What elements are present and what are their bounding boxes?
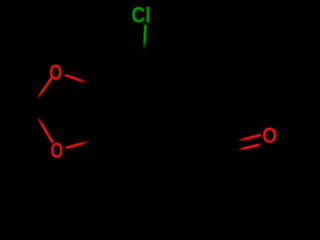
bond O3-C2 (red fading to black): [32, 107, 53, 143]
svg-text:O: O: [49, 60, 62, 85]
bond C8=O9 upper line (red fading to black): [228, 135, 261, 143]
bond O1-C2 (red fading to black): [32, 77, 53, 107]
bond O1-C7a (red fading to black): [65, 75, 96, 86]
svg-text:Cl: Cl: [131, 3, 150, 28]
benzene ring (black, invisible on background): [96, 57, 185, 158]
svg-text:O: O: [50, 138, 63, 163]
bond C5-C8 (black): [185, 133, 229, 148]
svg-text:O: O: [262, 123, 277, 148]
aromatic inner line C7-C6: [147, 64, 177, 88]
bond C7-Cl (green fading to black): [144, 25, 146, 57]
aromatic inner line C4-C5: [143, 136, 179, 151]
bond C8=O9 lower line (red fading to black): [230, 145, 260, 152]
bond O3-C3a (red fading to black): [66, 139, 98, 147]
aromatic inner line C7a-C3a: [102, 90, 104, 137]
